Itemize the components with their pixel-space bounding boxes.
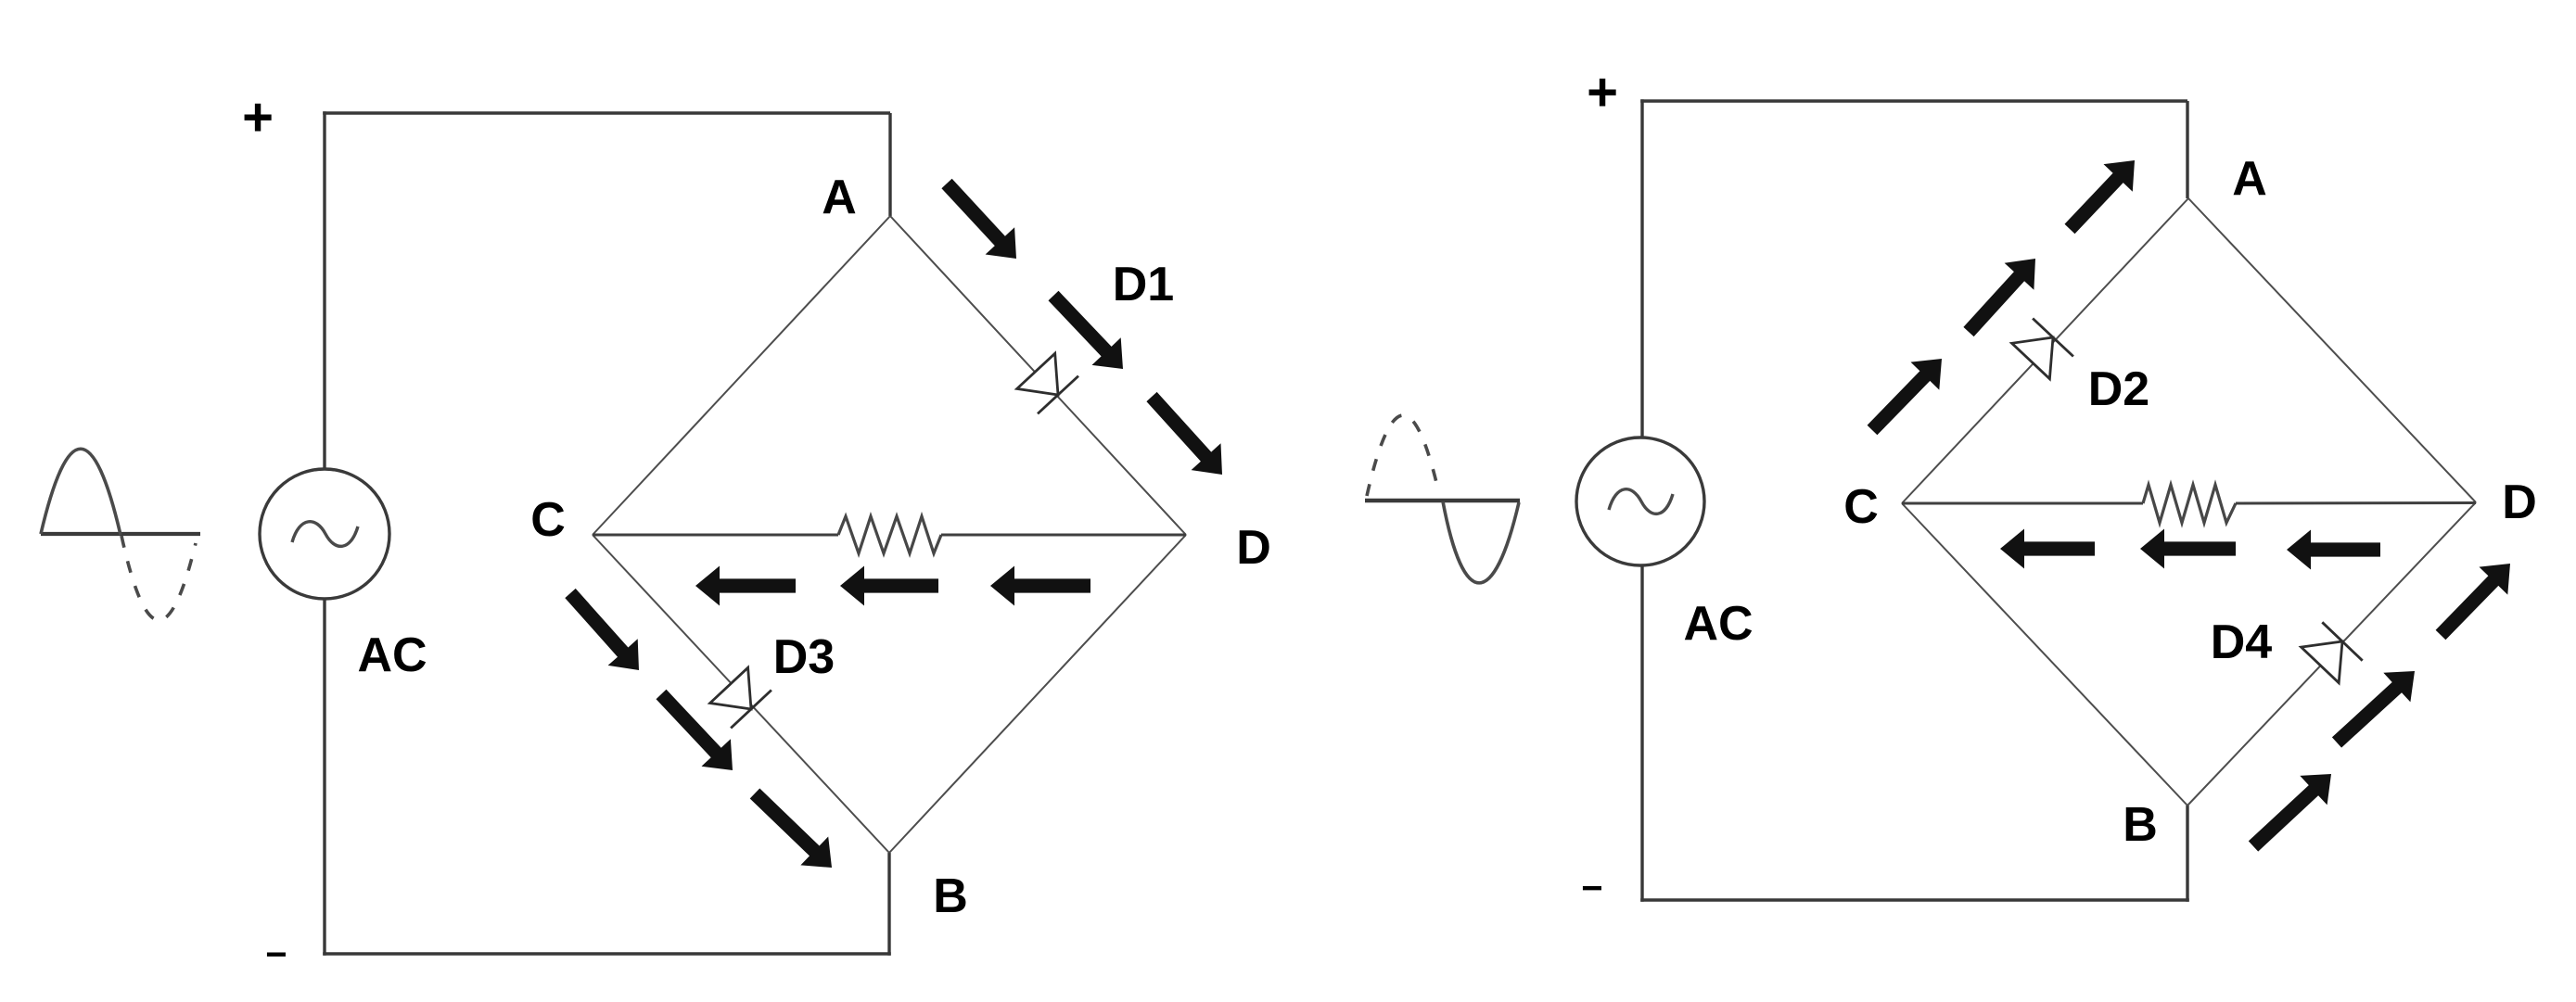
current arrow 3 along C-B (left) (750, 789, 832, 869)
svg-text:D4: D4 (2211, 615, 2273, 669)
waveform positive half-cycle solid (left) (41, 449, 121, 535)
wire: right circuit left vertical lower (source - terminal) (1640, 564, 1643, 902)
wire: left circuit left vertical upper (source + terminal) (323, 111, 325, 469)
wire: right circuit left vertical upper (source + terminal) (1640, 99, 1643, 438)
svg-text:C: C (530, 493, 566, 547)
svg-text:D2: D2 (2088, 362, 2149, 416)
waveform axis (left input sine) (41, 532, 200, 536)
current arrow 1 through load toward C (left) (695, 566, 796, 606)
current arrow 1 along C-A (right) (1868, 359, 1942, 435)
waveform negative half-cycle dashed (left) (121, 536, 196, 620)
wire: node C to resistor (right) (1902, 502, 2143, 505)
ac source AC (left), circle (260, 469, 389, 599)
current arrow 1 along C-B (left) (565, 589, 639, 670)
wire: bridge edge A-C with diode D2 (right) (1902, 198, 2188, 503)
svg-text:B: B (933, 869, 968, 923)
wire: bridge edge C-B with diode D3 (left) (593, 535, 889, 853)
svg-text:D: D (1236, 521, 1271, 575)
wire: left circuit left vertical lower (source - terminal) (323, 600, 325, 956)
current arrow 2 along C-B (left) (657, 690, 733, 770)
svg-text:−: − (265, 934, 287, 975)
svg-text:+: + (1587, 62, 1618, 122)
current arrow 1 along B-D (right) (2249, 774, 2331, 852)
svg-text:AC: AC (357, 628, 427, 682)
wire: right circuit top (+ rail from source to node A) (1640, 99, 2187, 102)
current arrow 1 along A-D (left) (941, 179, 1016, 259)
diode D4 (conducting, on edge B-D) (2302, 622, 2363, 682)
current arrow 3 through load toward C (right) (2287, 530, 2380, 570)
waveform axis (right input sine) (1365, 499, 1520, 502)
current arrow 2 through load toward C (right) (2140, 529, 2236, 569)
current arrow 1 through load toward C (right) (2000, 529, 2095, 569)
wire: node B stem (bridge node B to bottom rail) (887, 853, 890, 956)
svg-text:A: A (2232, 152, 2267, 206)
svg-text:D1: D1 (1113, 258, 1174, 311)
wire: bridge edge C-B (right) (1902, 503, 2187, 805)
resistor R load (left) (838, 516, 941, 553)
svg-text:D3: D3 (773, 630, 835, 684)
wire: left circuit bottom (- rail to node B) (323, 952, 891, 955)
wire: node A stem (right bridge) (2186, 101, 2188, 198)
wire: left circuit top (+ rail from source to node A) (323, 111, 890, 114)
wire: node B stem (right bridge) (2186, 805, 2188, 902)
svg-text:−: − (1581, 869, 1602, 909)
wire: bridge edge A-D with diode D1 (left) (890, 216, 1186, 535)
svg-text:+: + (242, 87, 274, 147)
ac source AC (right), sine glyph (1609, 489, 1673, 514)
wire: node A stem (top rail to bridge node A) (888, 113, 891, 216)
current arrow 3 along A-D (left) (1146, 392, 1222, 475)
wire: bridge edge A-D (right) (2188, 198, 2476, 502)
current arrow 3 through load toward C (left) (990, 566, 1090, 606)
svg-text:D: D (2502, 476, 2537, 529)
wire: bridge edge B-D with diode D4 (right) (2187, 502, 2476, 805)
wire: resistor to node D (right) (2236, 501, 2476, 505)
waveform positive half-cycle dashed (right) (1367, 415, 1439, 496)
svg-text:A: A (822, 171, 857, 224)
diode D2 (conducting, on edge C-A) (2012, 319, 2073, 379)
ac source AC (left), sine glyph (292, 522, 358, 547)
svg-text:AC: AC (1683, 597, 1753, 651)
current arrow 2 along B-D (right) (2332, 671, 2415, 748)
resistor R load (right) (2143, 485, 2236, 523)
ac source AC (right), circle (1576, 438, 1704, 565)
current arrow 3 along C-A (right) (2065, 160, 2136, 234)
current arrow 3 along B-D (right) (2436, 564, 2510, 640)
wire: right circuit bottom (- rail to node B) (1640, 898, 2189, 901)
wire: bridge edge A-C (left, diode D2 arm not shown) (593, 216, 890, 535)
current arrow 2 along A-D (left) (1049, 291, 1124, 369)
diode D1 (conducting, on edge A-D) (1017, 353, 1078, 413)
waveform negative half-cycle solid (right) (1443, 501, 1519, 583)
current arrow 2 along C-A (right) (1963, 259, 2035, 336)
diode D3 (conducting, on edge C-B) (710, 667, 772, 728)
svg-text:C: C (1843, 480, 1879, 534)
svg-text:B: B (2123, 798, 2158, 852)
current arrow 2 through load toward C (left) (840, 566, 938, 606)
wire: bridge edge D-B (left) (889, 535, 1186, 853)
wire: resistor to node D (left) (941, 534, 1186, 537)
wire: node C to resistor (left) (593, 534, 838, 537)
